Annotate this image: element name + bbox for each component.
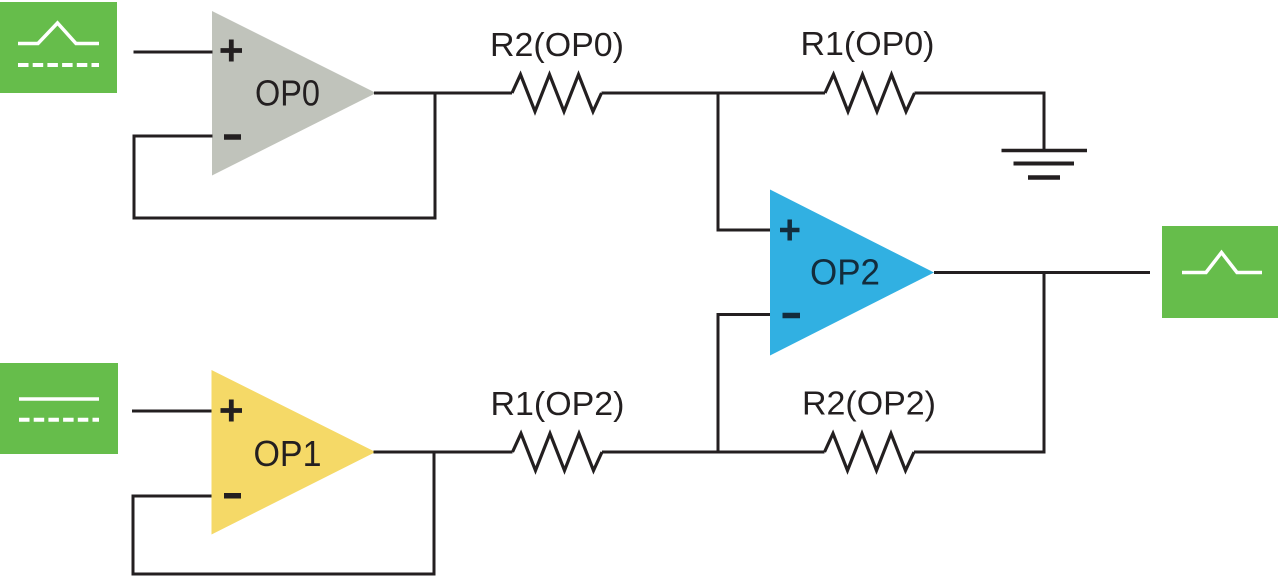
wire: OP2 - input down to node B rail [718, 315, 770, 453]
OP0 - pin symbol [224, 134, 241, 140]
wire: node A down to OP2 + input [718, 93, 770, 230]
svg-text:R2(OP0): R2(OP0) [490, 26, 624, 63]
op-amp OP2 (difference amp, blue) [770, 190, 934, 356]
op-amp OP1 (buffer, yellow) [212, 370, 376, 535]
OP0 + pin symbol [221, 40, 243, 62]
output icon OUT (pulse) [1162, 226, 1278, 318]
wire: R2(OP2) up to OP2 output [914, 273, 1044, 453]
OP1 + pin symbol [221, 400, 243, 422]
wire: IN1 to OP0 + input [134, 51, 213, 54]
OP1 - pin symbol [224, 493, 241, 499]
svg-text:R1(OP2): R1(OP2) [491, 385, 625, 422]
svg-text:OP1: OP1 [254, 433, 322, 474]
wire: R1(OP0) to ground [915, 93, 1045, 150]
wire: R1(OP2) to R2(OP2) (node B rail) [602, 451, 825, 454]
svg-text:OP2: OP2 [810, 252, 880, 293]
resistor R2(OP0) [512, 75, 602, 112]
wire: OP0 feedback loop (output to - input) [134, 93, 435, 218]
resistor R1(OP0) [825, 75, 915, 112]
wire: IN2 to OP1 + input [132, 410, 212, 413]
source icon IN1 (pulse + dashed baseline) [0, 2, 117, 93]
resistor R2(OP2) [825, 434, 915, 471]
wire: OP1 feedback loop (output to - input) [133, 452, 434, 574]
wire: OP0 output to R2(OP0) [374, 92, 512, 95]
source icon IN2 (DC level + dashed baseline) [0, 363, 118, 454]
resistor R1(OP2) [513, 434, 603, 471]
svg-text:R2(OP2): R2(OP2) [802, 385, 936, 422]
OP2 - pin symbol [783, 313, 801, 319]
op-amp OP0 (buffer, grey) [212, 11, 376, 176]
ground symbol [1002, 151, 1088, 178]
wire: OP1 output to R1(OP2) [374, 451, 513, 454]
svg-text:R1(OP0): R1(OP0) [801, 25, 935, 62]
wire: R2(OP0) to R1(OP0) (node A rail) [602, 92, 826, 95]
wire: OP2 output to OUT icon [934, 271, 1150, 274]
svg-text:OP0: OP0 [255, 73, 320, 114]
OP2 + pin symbol [780, 220, 800, 241]
